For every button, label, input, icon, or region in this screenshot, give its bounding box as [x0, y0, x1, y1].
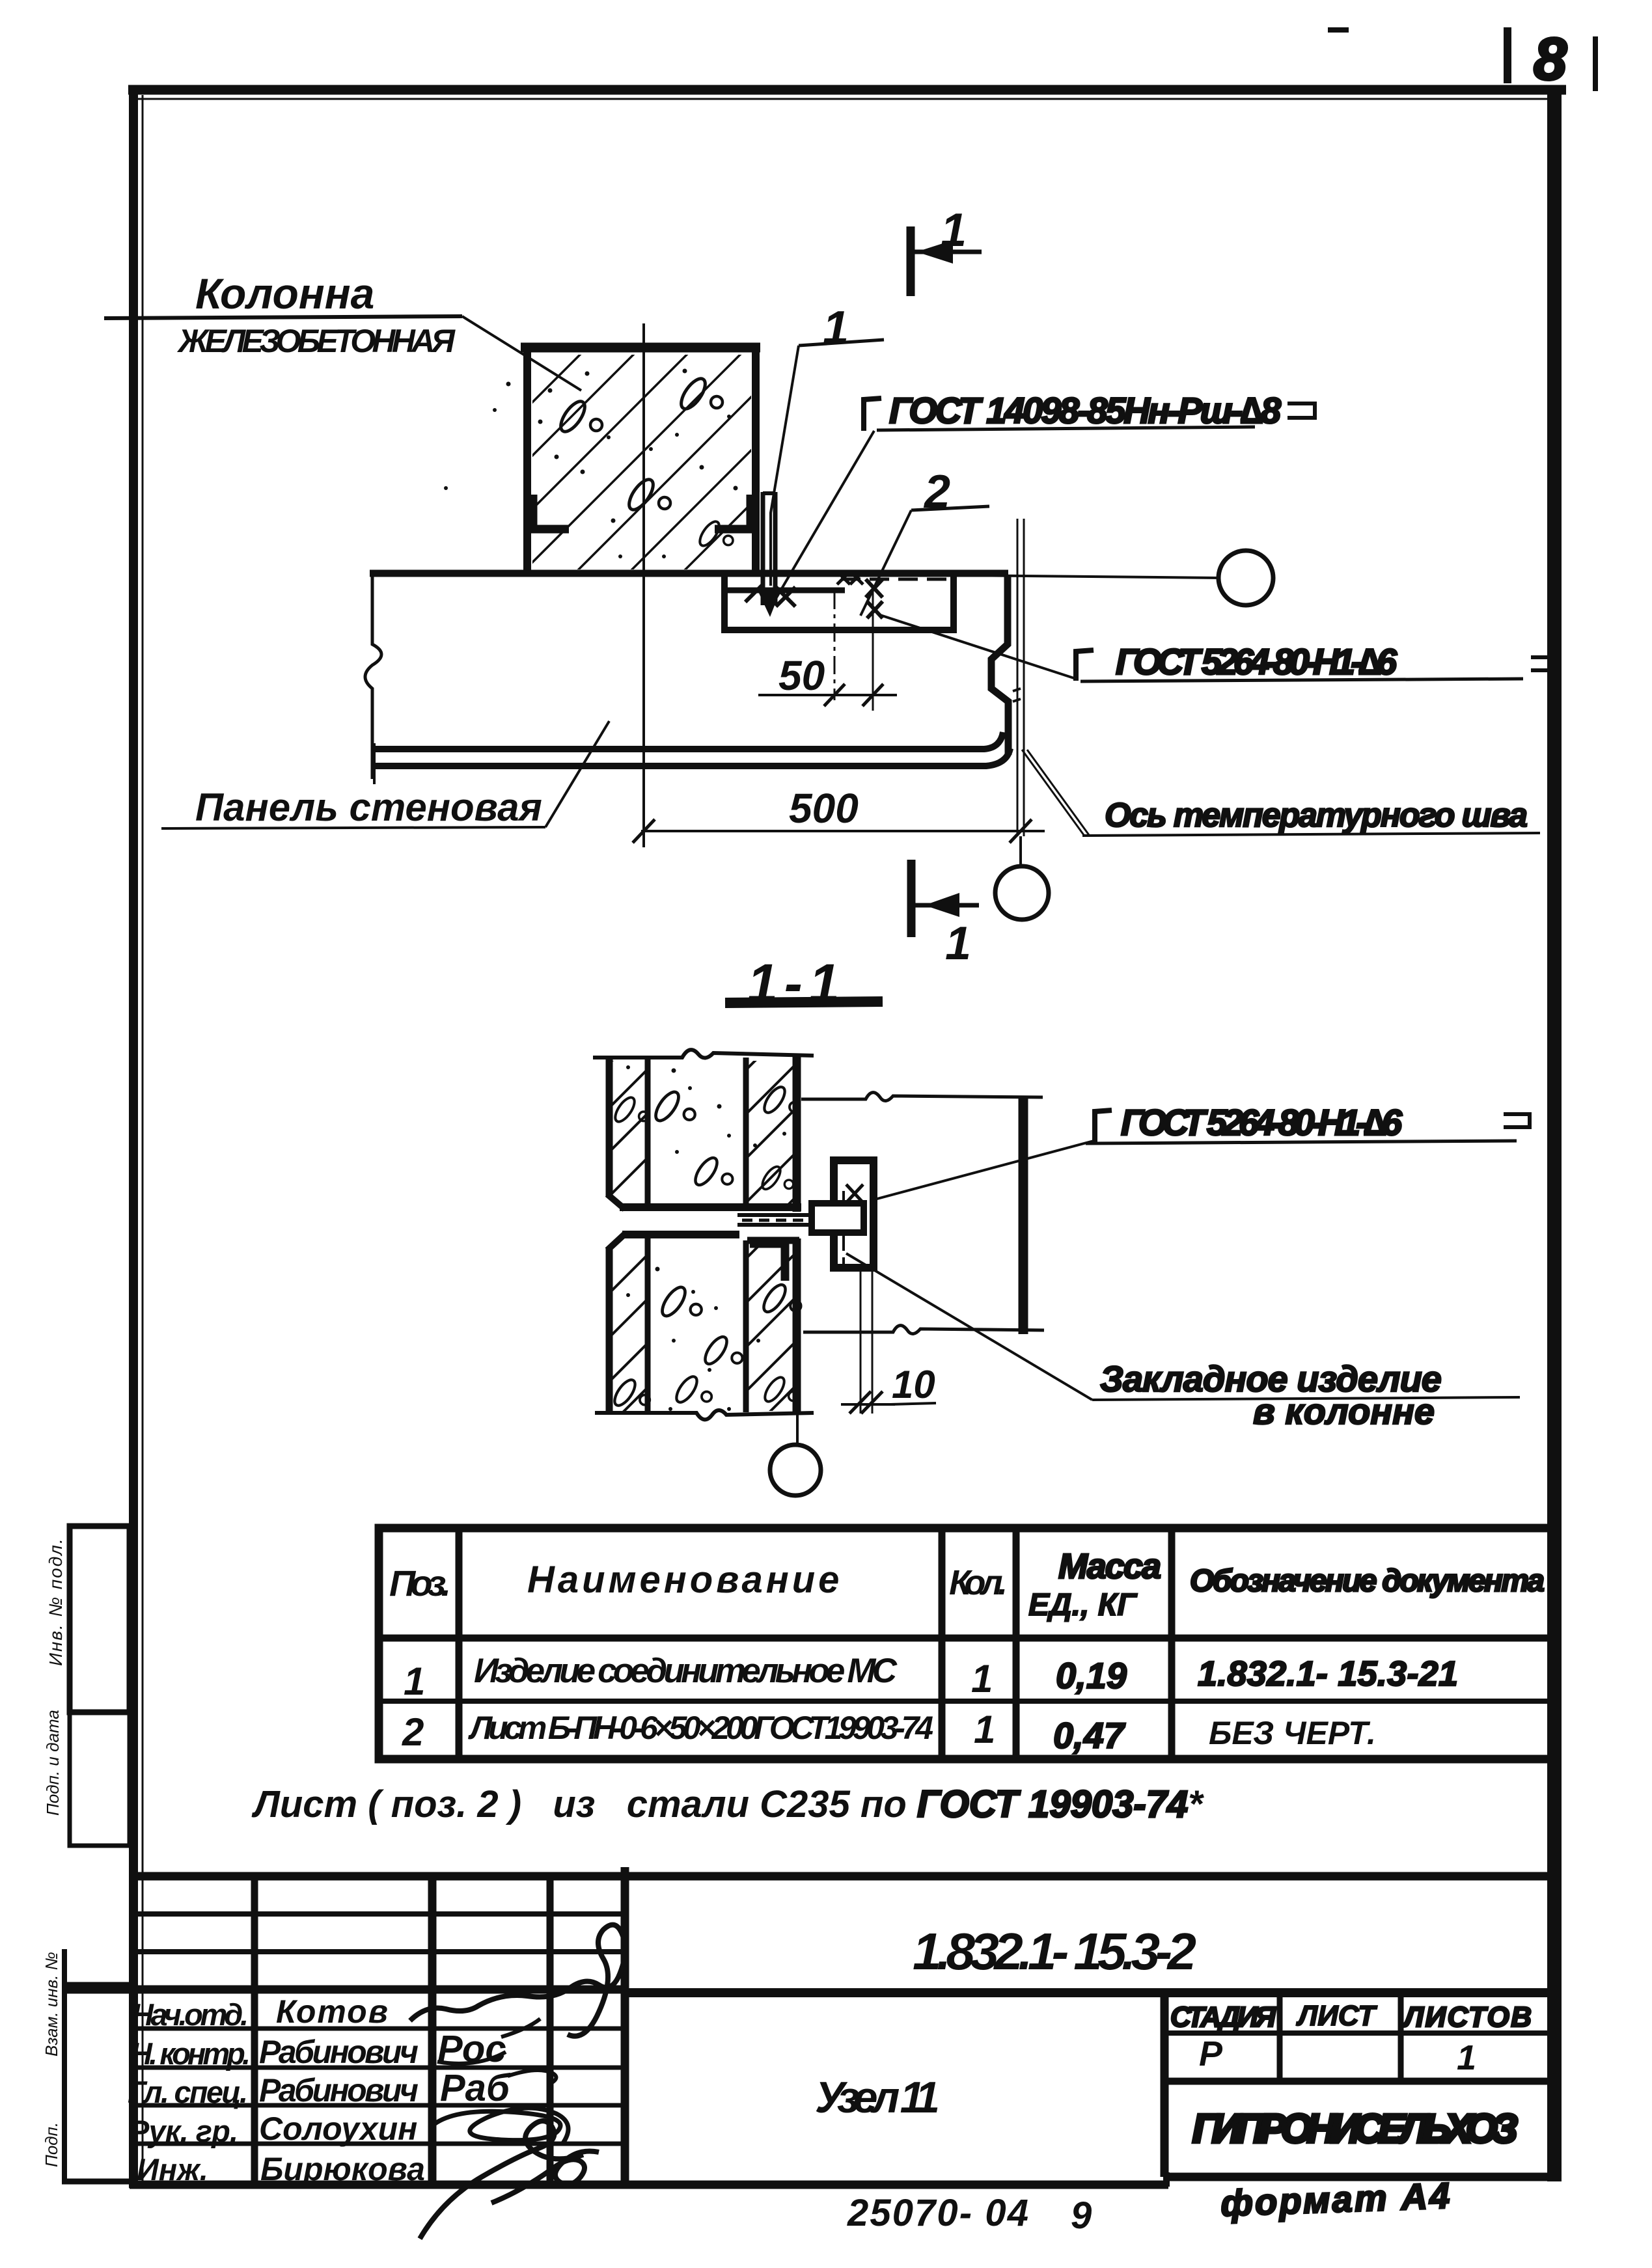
svg-text:Подп.: Подп. [42, 2122, 61, 2167]
washer rect [812, 1203, 864, 1233]
dim 50 tick right [862, 684, 883, 706]
SECTION: parts table [251, 1528, 1554, 1825]
dim 10 underline [890, 1403, 936, 1404]
svg-text:Бирюкова: Бирюкова [260, 2151, 425, 2187]
panel bottom line 1 [372, 732, 1003, 749]
title bold middle line [67, 1986, 625, 1994]
right vertical thick line [1019, 1099, 1028, 1334]
lower panel embedded angle [750, 1244, 785, 1281]
frame inner top thin line [138, 98, 1559, 100]
svg-text:Р: Р [1199, 2034, 1223, 2073]
lower panel right edge [793, 1238, 801, 1414]
title vertical line A [251, 1876, 258, 2185]
upper panel chamfer [607, 1194, 625, 1209]
гипронисельхоз box bottom [1168, 2174, 1554, 2180]
frame top line [128, 85, 1566, 95]
label 1 shelf line [799, 340, 884, 346]
margin box B [70, 1712, 130, 1846]
axis label leader double [1022, 750, 1089, 835]
signature солоухин scrawl [430, 2108, 568, 2143]
svg-text:1.832.1- 15.3-2: 1.832.1- 15.3-2 [913, 1922, 1196, 1980]
svg-text:8: 8 [1534, 26, 1567, 92]
column RC concrete body outline [521, 343, 760, 573]
weld mark gost14098 flag [864, 398, 881, 431]
signature рос tail [437, 2019, 540, 2064]
lower panel band divider 2 [743, 1240, 749, 1412]
title row line 2 [133, 2066, 625, 2070]
svg-text:9: 9 [1071, 2194, 1092, 2237]
svg-text:Гл. спец.: Гл. спец. [128, 2075, 248, 2109]
right subblock vertical [1161, 1993, 1169, 2177]
svg-text:ГОСТ 14098-85Нн-Рш-∆8: ГОСТ 14098-85Нн-Рш-∆8 [889, 390, 1282, 431]
lower panel hatch right band [709, 1178, 827, 1561]
embedded angle right [715, 495, 750, 529]
svg-text:Солоухин: Солоухин [259, 2111, 417, 2147]
upper panel aggregates [652, 1088, 695, 1124]
margin box C top [64, 1982, 133, 1988]
temp seam axis double line [1017, 519, 1024, 836]
leader to gost5264 [875, 1140, 1096, 1199]
svg-text:25070- 04: 25070- 04 [847, 2192, 1028, 2234]
frame bottom step [1163, 2172, 1170, 2187]
page number left bar [1504, 27, 1511, 83]
svg-text:1: 1 [971, 1657, 993, 1701]
dim 50 line [758, 694, 897, 696]
title vertical line D [621, 1867, 629, 2185]
title row line 3 [133, 2103, 625, 2108]
svg-text:1: 1 [404, 1660, 425, 1703]
svg-text:Обозначение документа: Обозначение документа [1190, 1564, 1545, 1598]
recess right edge [950, 575, 957, 633]
title row line 4 [133, 2142, 625, 2146]
title horizontal row a [133, 1911, 625, 1917]
node circle section [770, 1445, 821, 1496]
SECTION: title block [67, 1867, 1557, 2239]
dim 50 extension dashdot [834, 591, 836, 700]
margin box C left edge [62, 1949, 67, 2183]
SECTION: top view drawing [104, 204, 1557, 970]
recess left edge [721, 575, 728, 633]
column label underline [104, 316, 462, 318]
axis label underline [1082, 833, 1540, 836]
wall top edge with wave [593, 1050, 814, 1058]
svg-text:ЛИСТ: ЛИСТ [1296, 2000, 1377, 2032]
weld text tail mark [1287, 403, 1315, 418]
section mark bottom arrow head [924, 893, 959, 917]
svg-text:Колонна: Колонна [195, 269, 374, 318]
plate arrow head [757, 589, 781, 617]
node circle bottom of axis [995, 866, 1049, 920]
section mark top arrow head [916, 240, 953, 264]
table row line [379, 1699, 1554, 1704]
centerline below wall [796, 1413, 799, 1446]
table column line кол [1013, 1528, 1020, 1759]
bolt plate lower line [737, 1223, 846, 1227]
svg-text:Котов: Котов [276, 1993, 389, 2030]
закладное leader [846, 1253, 1092, 1400]
upper panel band divider 2 [743, 1058, 749, 1207]
стадия лист divider [1277, 1993, 1283, 2081]
dim 10 ticks [849, 1391, 883, 1414]
svg-text:ГОСТ 5264-80-Н1-∆6: ГОСТ 5264-80-Н1-∆6 [1121, 1102, 1403, 1143]
upper panel right edge [793, 1056, 801, 1212]
SECTION: section 1-1 drawing [573, 953, 1530, 1561]
signature котов scrawl [410, 1925, 625, 2036]
svg-text:Узел 11: Узел 11 [815, 2073, 940, 2122]
panel bottom left tick [373, 743, 376, 784]
svg-text:Инж.: Инж. [137, 2152, 208, 2187]
weld X marks right [866, 579, 883, 618]
table column line поз [456, 1528, 463, 1759]
column hatch lines [349, 325, 929, 586]
lower panel top right [747, 1237, 799, 1244]
upper panel dots [626, 1065, 786, 1207]
recess top partial edge [721, 588, 845, 594]
svg-text:1: 1 [945, 918, 971, 970]
svg-text:1.832.1- 15.3-21: 1.832.1- 15.3-21 [1198, 1654, 1458, 1693]
upper panel band divider 1 [645, 1058, 651, 1207]
weld xxx marks on plate2 [837, 571, 863, 584]
svg-text:1: 1 [941, 204, 967, 256]
svg-text:Изделие соединительное МС: Изделие соединительное МС [474, 1652, 898, 1690]
lower panel dots [626, 1267, 760, 1412]
page number right bar [1593, 36, 1598, 91]
table column line наименование [939, 1528, 946, 1759]
column label leader [462, 316, 581, 390]
dim 500 tick left [633, 819, 655, 843]
dim 10 line [841, 1403, 895, 1406]
svg-text:Рабинович: Рабинович [259, 2034, 419, 2070]
gost5264 underline section [1086, 1141, 1517, 1143]
weld flag gost5264 section [1095, 1110, 1112, 1142]
svg-text:Взам. инв. №: Взам. инв. № [42, 1952, 61, 2056]
svg-text:ЛИСТОВ: ЛИСТОВ [1402, 2001, 1532, 2033]
svg-text:1: 1 [1457, 2038, 1476, 2077]
weld flag gost5264 topview [1076, 650, 1094, 681]
svg-text:Раб: Раб [440, 2067, 511, 2109]
svg-text:Подп. и дата: Подп. и дата [43, 1710, 62, 1816]
column aggregate ovals [557, 398, 602, 435]
svg-text:Панель стеновая: Панель стеновая [195, 786, 542, 829]
panel label leader [545, 721, 609, 827]
stray dash top [1328, 27, 1349, 33]
leader to top node circle [961, 575, 1219, 578]
upper panel left edge [606, 1056, 613, 1196]
node circle top right [1218, 551, 1273, 605]
закладное underline [1092, 1397, 1520, 1400]
svg-text:Масса: Масса [1058, 1547, 1161, 1586]
title horizontal row b [133, 1949, 625, 1954]
svg-text:ГОСТ 5264-80-Н1-∆6: ГОСТ 5264-80-Н1-∆6 [1116, 641, 1397, 682]
table header bottom line [379, 1635, 1554, 1642]
recess hidden dashed edge [841, 578, 950, 581]
svg-text:50: 50 [778, 652, 825, 699]
label 2 shelf line [911, 506, 989, 510]
margin box A [70, 1526, 130, 1712]
table outer border [379, 1528, 1554, 1759]
panel label underline [161, 827, 545, 828]
signature раб tail [508, 2070, 556, 2084]
frame right line [1547, 85, 1562, 2181]
dim 500 tick right [1010, 819, 1032, 843]
lower panel aggregates [658, 1283, 702, 1319]
margin box C bottom [62, 2179, 133, 2185]
svg-text:500: 500 [789, 785, 859, 832]
upper panel bottom [620, 1203, 801, 1211]
lower panel chamfer [607, 1234, 625, 1250]
bolt hatch dashes [742, 1219, 812, 1222]
column concrete dots [444, 369, 738, 559]
section mark bottom arrow line [915, 903, 979, 908]
svg-text:1: 1 [974, 1708, 995, 1751]
line below values [1164, 2078, 1554, 2085]
title vertical line C [547, 1876, 554, 2185]
panel right end with groove [991, 575, 1008, 755]
panel top surface [370, 570, 1008, 577]
weld text underline [877, 427, 1255, 430]
svg-text:10: 10 [892, 1363, 935, 1406]
lower panel bottom with wave [595, 1410, 814, 1419]
embedded plate rect [834, 1160, 874, 1268]
svg-text:Кол.: Кол. [949, 1563, 1008, 1602]
svg-text:Рук. гр.: Рук. гр. [129, 2114, 238, 2148]
svg-text:Поз.: Поз. [389, 1563, 451, 1604]
embedded angle left [533, 495, 569, 529]
connecting plate pos1 vertical strip [763, 492, 775, 605]
label 2 leader [860, 510, 911, 616]
weld gost5264 topview underline [1081, 679, 1523, 681]
gost5264 tail mark [1504, 1114, 1530, 1127]
section mark bottom bar [907, 860, 916, 937]
upper panel hatch left band [573, 983, 690, 1321]
bolt plate upper line [737, 1213, 846, 1217]
svg-text:0,19: 0,19 [1056, 1655, 1127, 1696]
frame left line [129, 85, 138, 2188]
svg-text:1: 1 [823, 302, 849, 354]
svg-text:Лист Б-ПН-0-6×50×200ГОСТ19903-: Лист Б-ПН-0-6×50×200ГОСТ19903-74 [468, 1710, 933, 1746]
weld leader gost14098 [772, 431, 874, 605]
svg-text:ЕД., КГ: ЕД., КГ [1028, 1588, 1138, 1622]
weld X marks at arrow [745, 584, 795, 607]
frame bottom line right part [1164, 2173, 1561, 2181]
title vertical line B [428, 1876, 437, 2185]
svg-text:Н. контр.: Н. контр. [130, 2036, 251, 2071]
signature бирюкова scrawl [420, 2121, 599, 2239]
column centerline [642, 323, 645, 847]
svg-text:Рабинович: Рабинович [259, 2072, 419, 2109]
panel left edge with break [365, 571, 381, 779]
svg-text:Ось температурного шва: Ось температурного шва [1105, 797, 1528, 834]
title row line 1 [133, 2027, 625, 2031]
SECTION: page number 8 [1328, 26, 1595, 92]
header underline right block [1164, 2030, 1554, 2036]
recess bottom edge [721, 627, 957, 633]
label 1 leader [771, 346, 799, 586]
title divider line below doc number [625, 1988, 1557, 1997]
right horizontal line lower [803, 1326, 1044, 1334]
seam axis tick marks [1013, 689, 1021, 702]
svg-text:ЖЕЛЕЗОБЕТОННАЯ: ЖЕЛЕЗОБЕТОННАЯ [176, 323, 456, 359]
temp seam axis lower single [1019, 836, 1022, 866]
dim 50 extension right [872, 591, 874, 711]
section mark top arrow line [915, 250, 982, 254]
panel bottom line 2 [372, 748, 1010, 766]
section title underline [725, 1002, 883, 1003]
svg-text:БЕЗ ЧЕРТ.: БЕЗ ЧЕРТ. [1209, 1715, 1376, 1751]
SECTION: left margin boxes [42, 1526, 133, 2183]
лист листов divider [1398, 1993, 1404, 2081]
dim 500 line [641, 830, 1045, 832]
title block top line [130, 1872, 1557, 1881]
lower panel top left [622, 1231, 739, 1238]
svg-text:СТАДИЯ: СТАДИЯ [1170, 2001, 1276, 2033]
right horizontal line upper [801, 1093, 1043, 1101]
table column line масса [1168, 1528, 1176, 1759]
lower panel left edge [606, 1248, 613, 1414]
upper panel hatch right band [709, 989, 827, 1328]
svg-text:Наименование: Наименование [527, 1559, 842, 1601]
lower panel band divider 1 [645, 1235, 651, 1412]
weld X marks on plate [846, 1184, 863, 1203]
frame bottom line left part [130, 2181, 1168, 2189]
frame inner left thin line [142, 95, 144, 2184]
svg-text:Инв. № подл.: Инв. № подл. [46, 1537, 66, 1666]
weld gost5264 topview leader [880, 615, 1078, 679]
section mark top bar [907, 226, 915, 296]
svg-text:Нач.отд.: Нач.отд. [131, 1997, 249, 2032]
svg-text:2: 2 [402, 1710, 424, 1754]
embedded plate dashed line [842, 1191, 845, 1265]
dim 50 tick left [824, 684, 845, 706]
svg-text:Лист ( поз. 2 ) из стали: Лист ( поз. 2 ) из стали С235 по ГОСТ 19… [251, 1783, 1204, 1825]
dim 10 extension lines [860, 1269, 872, 1414]
lower panel hatch left band [573, 1168, 690, 1551]
weld text gost5264 topview tail [1531, 657, 1557, 670]
svg-text:0,47: 0,47 [1053, 1715, 1126, 1756]
svg-text:ГИПРОНИСЕЛЬХОЗ: ГИПРОНИСЕЛЬХОЗ [1192, 2107, 1518, 2152]
